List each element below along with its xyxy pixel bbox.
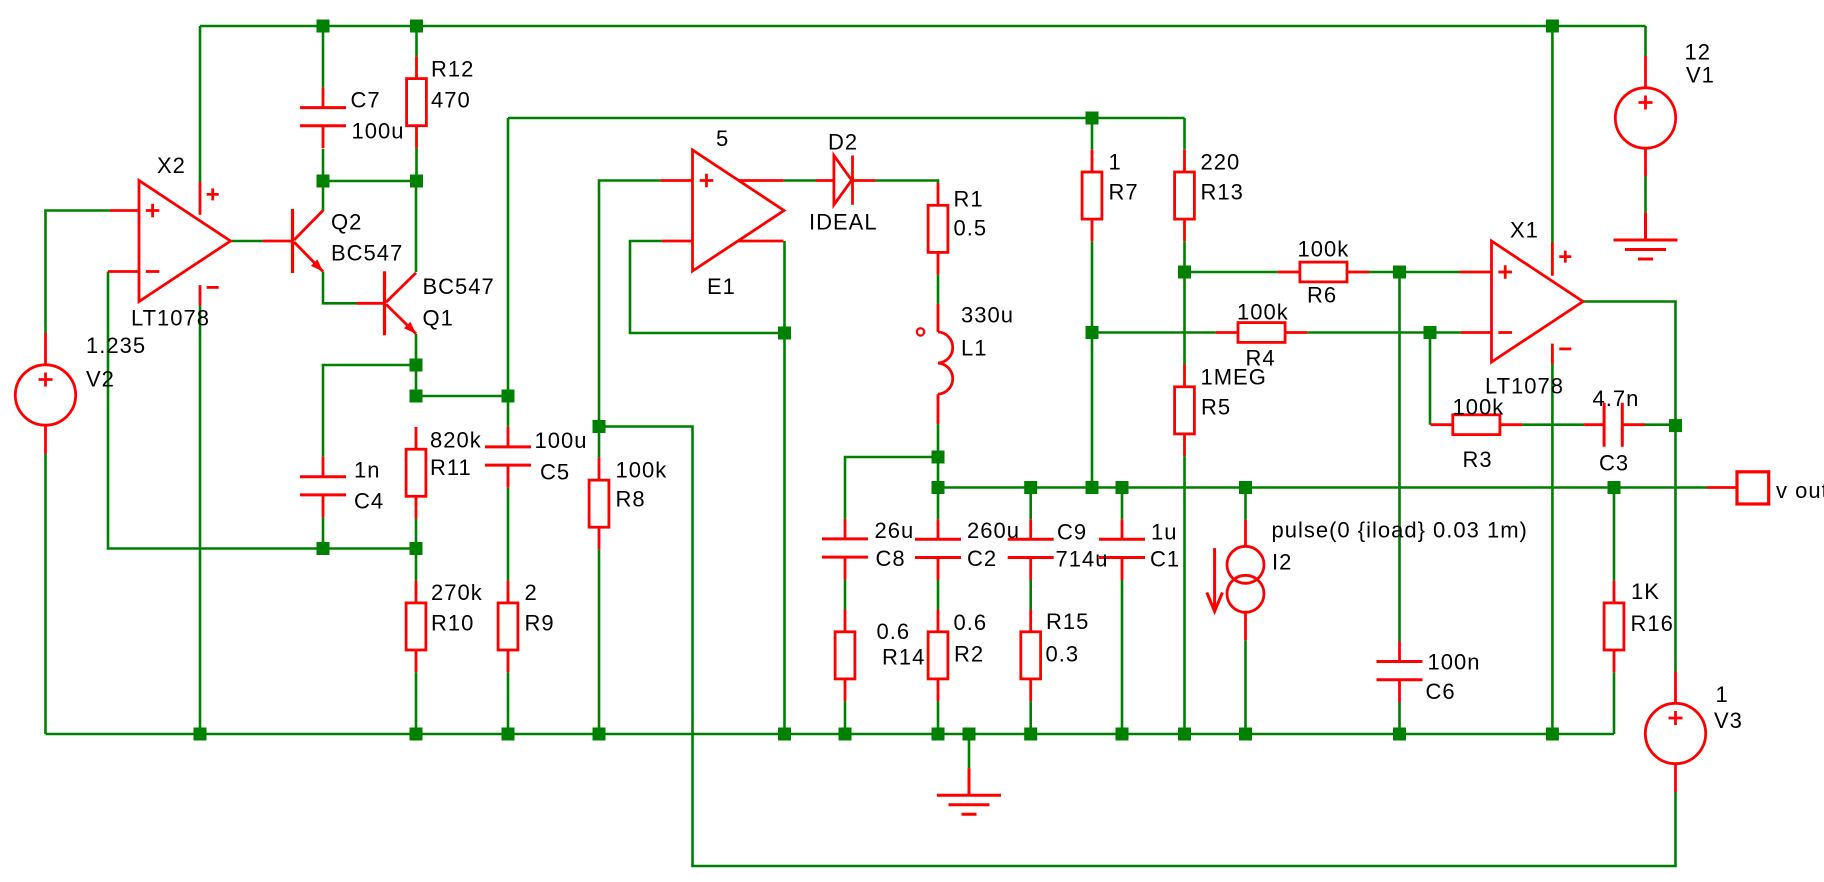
- vcvs E1: [693, 150, 785, 271]
- vcvs E1 -in pin: [662, 240, 693, 243]
- resistor R9: [507, 581, 510, 673]
- capacitor C6: [1398, 642, 1401, 703]
- junction: [778, 728, 791, 741]
- wire R13 bottom: [1183, 241, 1186, 272]
- op-amp X1 - sign: [1498, 331, 1512, 334]
- junction: [593, 420, 606, 433]
- resistor R11: [415, 427, 418, 519]
- op-amp X1 + sign: [1498, 265, 1512, 279]
- svg-text:v out: v out: [1776, 478, 1824, 503]
- resistor R4: [1216, 331, 1308, 334]
- wire X2 -in loop: [108, 272, 416, 549]
- svg-text:C8: C8: [876, 546, 906, 571]
- svg-text:R12: R12: [431, 57, 474, 82]
- wire R12 top: [415, 26, 418, 56]
- wire V1 to ground: [1644, 177, 1647, 213]
- svg-text:100n: 100n: [1428, 650, 1481, 675]
- op-amp X2 +in pin: [110, 209, 139, 212]
- vcvs E1 + sign: [700, 174, 714, 188]
- svg-text:R5: R5: [1201, 395, 1231, 420]
- wire E1 -in loop: [630, 241, 785, 333]
- junction: [1546, 20, 1559, 33]
- capacitor C8: [844, 519, 847, 580]
- op-amp X1 +in pin: [1460, 271, 1492, 274]
- wire I2 column: [1244, 488, 1247, 735]
- vcvs E1 out bottom pin: [739, 240, 784, 243]
- current source I2: [1244, 520, 1247, 640]
- svg-text:R2: R2: [954, 642, 984, 667]
- op-amp X1 -in pin: [1461, 331, 1492, 334]
- svg-text:R11: R11: [430, 455, 472, 480]
- svg-text:V3: V3: [1714, 708, 1743, 733]
- wire vout rail: [938, 486, 1707, 489]
- svg-text:5: 5: [716, 126, 729, 151]
- junction: [1239, 481, 1252, 494]
- junction: [1024, 728, 1037, 741]
- voltage source V2: [44, 333, 47, 454]
- junction: [1086, 326, 1099, 339]
- wire Q1 emitter down: [415, 334, 418, 396]
- junction: [963, 728, 976, 741]
- wire V2 to bus: [44, 454, 47, 735]
- junction: [1546, 728, 1559, 741]
- junction: [502, 390, 515, 403]
- transistor Q1: [357, 302, 385, 305]
- vcvs E1 +in pin: [660, 179, 692, 182]
- svg-text:12: 12: [1685, 40, 1711, 65]
- junction: [1116, 481, 1129, 494]
- svg-text:R7: R7: [1109, 180, 1139, 205]
- wire R14 bottom: [844, 701, 847, 734]
- wire X1 V- to bus: [1551, 364, 1554, 734]
- junction: [1393, 728, 1406, 741]
- svg-text:100k: 100k: [1237, 300, 1289, 325]
- svg-text:1: 1: [1716, 682, 1729, 707]
- wire R11 top link: [416, 395, 508, 398]
- resistor R10: [415, 581, 418, 673]
- wire V1 drop: [1644, 26, 1647, 56]
- junction: [1178, 728, 1191, 741]
- wire Q1 collector: [415, 181, 418, 272]
- op-amp X2 V- pin: [199, 285, 202, 305]
- resistor R1: [937, 183, 940, 275]
- wire C4 bottom: [322, 517, 325, 548]
- ground: [1614, 213, 1678, 259]
- wire C9 column: [1029, 488, 1032, 735]
- svg-text:C4: C4: [354, 489, 384, 514]
- svg-text:714u: 714u: [1056, 547, 1109, 572]
- junction: [1608, 481, 1621, 494]
- wire R6 line: [1185, 271, 1460, 274]
- op-amp X2: [139, 181, 231, 302]
- svg-text:R15: R15: [1046, 609, 1089, 634]
- svg-text:C2: C2: [967, 546, 997, 571]
- svg-text:R1: R1: [954, 187, 984, 212]
- capacitor C4: [322, 457, 325, 518]
- junction: [593, 728, 606, 741]
- inductor L1: [937, 304, 940, 332]
- resistor R13: [1183, 150, 1186, 242]
- wire R9 bottom: [507, 672, 510, 734]
- op-amp X1 V- sign: [1559, 347, 1571, 350]
- svg-text:330u: 330u: [961, 303, 1014, 328]
- svg-text:D2: D2: [828, 130, 858, 155]
- junction: [410, 359, 423, 372]
- capacitor C5: [507, 427, 510, 488]
- svg-text:R6: R6: [1307, 283, 1337, 308]
- junction: [1239, 728, 1252, 741]
- svg-text:R3: R3: [1463, 447, 1493, 472]
- wire C5 to R9: [507, 488, 510, 581]
- svg-text:R16: R16: [1631, 611, 1674, 636]
- resistor R2: [937, 610, 940, 702]
- svg-text:E1: E1: [707, 274, 736, 299]
- svg-text:L1: L1: [961, 336, 987, 361]
- capacitor C7: [322, 88, 325, 149]
- wire C6 column: [1398, 272, 1401, 734]
- svg-text:X1: X1: [1510, 218, 1539, 243]
- vcvs E1 out top pin: [739, 179, 784, 182]
- svg-text:V1: V1: [1686, 63, 1715, 88]
- svg-text:100k: 100k: [1453, 395, 1505, 420]
- wire C2 column: [937, 488, 940, 735]
- svg-text:C1: C1: [1150, 547, 1180, 572]
- resistor R16: [1613, 581, 1616, 673]
- svg-text:R14: R14: [882, 645, 925, 670]
- svg-text:1MEG: 1MEG: [1201, 365, 1267, 390]
- svg-text:X2: X2: [157, 153, 186, 178]
- svg-text:R9: R9: [525, 611, 555, 636]
- svg-text:R13: R13: [1201, 180, 1244, 205]
- voltage source V3: [1674, 672, 1677, 793]
- svg-text:100u: 100u: [535, 428, 588, 453]
- op-amp X1 V+ sign: [1559, 251, 1571, 263]
- svg-text:I2: I2: [1272, 549, 1292, 574]
- op-amp X2 V+ sign: [207, 188, 219, 200]
- wire Q1E to C4: [323, 365, 416, 457]
- resistor R14: [844, 610, 847, 702]
- diode D2: [816, 179, 876, 182]
- wire R13 top: [1183, 118, 1186, 150]
- wire X2 V+ feed: [199, 26, 202, 182]
- wire R4 line: [1092, 331, 1461, 334]
- wire L1 bottom: [937, 424, 940, 487]
- ground: [937, 768, 1001, 814]
- junction: [932, 451, 945, 464]
- wire R7 to R4 rail: [1091, 241, 1094, 332]
- svg-text:Q2: Q2: [331, 210, 362, 235]
- svg-text:0.5: 0.5: [954, 216, 988, 241]
- wire D2 to R1: [876, 181, 938, 184]
- junction: [1424, 326, 1437, 339]
- svg-text:V2: V2: [86, 367, 115, 392]
- wire ground stub: [968, 734, 971, 768]
- junction: [317, 20, 330, 33]
- wire C1 column: [1121, 488, 1124, 735]
- wire R11 bottom: [415, 519, 418, 549]
- junction: [410, 728, 423, 741]
- wire X2 out: [231, 240, 263, 243]
- svg-text:4.7n: 4.7n: [1593, 386, 1640, 411]
- wire R1 to L1: [937, 275, 940, 304]
- junction: [317, 175, 330, 188]
- wire R7 to vout rail: [1091, 333, 1094, 488]
- svg-text:Q1: Q1: [423, 306, 454, 331]
- capacitor C2: [937, 519, 940, 580]
- wire X2 V- to ground bus: [199, 306, 202, 735]
- junction: [932, 728, 945, 741]
- wire E1 +in: [599, 181, 660, 427]
- svg-text:820k: 820k: [430, 428, 482, 453]
- svg-text:C6: C6: [1426, 679, 1456, 704]
- wire C3 to junction: [1642, 423, 1675, 426]
- junction: [778, 327, 791, 340]
- svg-text:R8: R8: [616, 487, 646, 512]
- wire R4 to R3 corner: [1429, 333, 1432, 425]
- wire C7-R12 rail: [323, 180, 417, 183]
- svg-text:1u: 1u: [1151, 520, 1177, 545]
- resistor R12: [415, 56, 418, 148]
- wire C8 to R14: [844, 580, 847, 610]
- wire X2 +in: [46, 211, 110, 334]
- svg-text:0.6: 0.6: [954, 610, 988, 635]
- resistor R15: [1029, 610, 1032, 702]
- junction: [1669, 419, 1682, 432]
- svg-text:BC547: BC547: [331, 241, 403, 266]
- op-amp X2 - sign: [146, 270, 160, 273]
- junction: [502, 728, 515, 741]
- transistor Q2: [263, 240, 293, 243]
- svg-text:1: 1: [1109, 150, 1122, 175]
- svg-text:BC547: BC547: [423, 274, 495, 299]
- resistor R6: [1278, 271, 1370, 274]
- port v out: [1707, 486, 1737, 489]
- op-amp X1 V- pin: [1551, 344, 1554, 364]
- junction: [839, 728, 852, 741]
- wire X1 out: [1583, 302, 1676, 672]
- wire R8 column: [598, 427, 601, 735]
- junction: [410, 175, 423, 188]
- svg-text:pulse(0 {iload} 0.03 1m): pulse(0 {iload} 0.03 1m): [1272, 517, 1528, 542]
- junction: [1178, 266, 1191, 279]
- op-amp X2 V- sign: [207, 286, 219, 289]
- junction: [1393, 266, 1406, 279]
- wire top rail: [200, 25, 1646, 28]
- resistor R7: [1091, 150, 1094, 242]
- svg-text:0.3: 0.3: [1046, 642, 1080, 667]
- wire R16 column: [1613, 488, 1616, 735]
- svg-text:470: 470: [431, 88, 471, 113]
- junction: [410, 542, 423, 555]
- svg-text:IDEAL: IDEAL: [809, 209, 878, 234]
- op-amp X1: [1492, 241, 1584, 362]
- svg-text:1n: 1n: [354, 458, 380, 483]
- svg-text:260u: 260u: [967, 518, 1020, 543]
- wire R8 top link: [599, 427, 1676, 867]
- junction: [1086, 481, 1099, 494]
- svg-text:100u: 100u: [352, 119, 405, 144]
- op-amp X2 V+ pin: [199, 182, 202, 215]
- resistor R3: [1431, 423, 1523, 426]
- resistor R5: [1183, 365, 1186, 457]
- wire E1 out drop: [784, 179, 816, 182]
- wire ground bus: [46, 733, 1615, 736]
- wire E1 fb drop: [783, 241, 786, 734]
- svg-text:C7: C7: [351, 88, 381, 113]
- svg-text:2: 2: [525, 580, 538, 605]
- svg-text:R10: R10: [431, 611, 474, 636]
- svg-text:270k: 270k: [431, 580, 483, 605]
- junction: [1086, 112, 1099, 125]
- wire Q2 collector: [322, 181, 325, 211]
- op-amp X1 V+ pin: [1551, 243, 1554, 276]
- junction: [1024, 481, 1037, 494]
- svg-text:1.235: 1.235: [86, 333, 146, 358]
- svg-text:C5: C5: [540, 460, 570, 485]
- wire R5 column: [1183, 272, 1186, 734]
- wire R3 to C3: [1522, 423, 1584, 426]
- wire X1 V+ feed: [1551, 26, 1554, 243]
- wire C7 bottom: [322, 149, 325, 181]
- wire mid rail: [508, 117, 1185, 120]
- resistor R8: [598, 458, 601, 550]
- svg-text:100k: 100k: [616, 458, 668, 483]
- wire C5 top feed: [507, 118, 510, 427]
- op-amp X2 + sign: [146, 204, 160, 218]
- wire R10 column: [415, 549, 418, 735]
- wire Q2 emitter to Q1 base: [323, 272, 357, 304]
- voltage source V1: [1644, 56, 1647, 177]
- junction: [317, 542, 330, 555]
- svg-text:1K: 1K: [1631, 579, 1660, 604]
- junction: [1116, 728, 1129, 741]
- junction: [410, 390, 423, 403]
- capacitor C9: [1029, 519, 1032, 580]
- svg-text:LT1078: LT1078: [131, 306, 210, 331]
- capacitor C1: [1121, 519, 1124, 580]
- wire R12 bottom: [415, 148, 418, 181]
- junction: [194, 728, 207, 741]
- wire L1 to C8: [845, 457, 938, 519]
- svg-text:26u: 26u: [875, 518, 915, 543]
- junction: [932, 481, 945, 494]
- svg-text:220: 220: [1201, 150, 1241, 175]
- op-amp X2 -in pin: [108, 270, 139, 273]
- wire R7 top: [1091, 118, 1094, 150]
- svg-text:100k: 100k: [1298, 237, 1350, 262]
- svg-text:0.6: 0.6: [877, 619, 911, 644]
- svg-text:C9: C9: [1057, 520, 1087, 545]
- junction: [410, 20, 423, 33]
- capacitor C3: [1584, 423, 1645, 426]
- wire C7 top: [322, 26, 325, 88]
- svg-text:C3: C3: [1599, 451, 1629, 476]
